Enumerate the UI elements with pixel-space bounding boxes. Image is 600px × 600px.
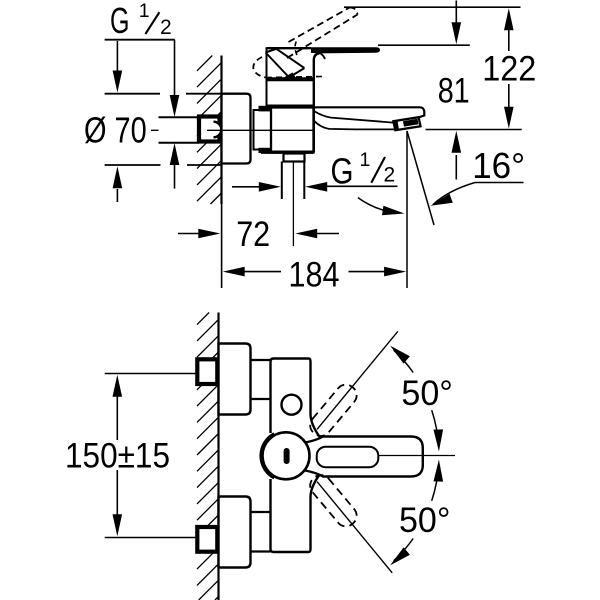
- upper escutcheon (front view): [219, 344, 251, 415]
- O70 arrow down: [116, 41, 118, 71]
- dimension 72 line and arrows: [178, 233, 202, 235]
- concealed supply pipe stub G1/2 (side view): [159, 116, 200, 118]
- S-union adapter (side view): [254, 110, 272, 150]
- front face double-curve detail (side view): [315, 52, 326, 60]
- wall face line (front view): [217, 313, 219, 600]
- body front face (side view): [314, 53, 320, 152]
- svg-text:16°: 16°: [472, 145, 525, 186]
- outlet G 1/2 dim arrows: [232, 186, 262, 188]
- O70 extension line bottom: [105, 164, 161, 166]
- boss outer collar arc (front view): [261, 433, 275, 478]
- 150 dim arrows: [113, 375, 123, 397]
- lower 50 deg arc inner segment with arrow (front view): [432, 464, 439, 501]
- O70 extension line top: [105, 93, 160, 95]
- G 1/2 underline (top left): [105, 39, 175, 41]
- dimension 122 arrows: [504, 8, 514, 30]
- svg-text:2: 2: [160, 16, 172, 39]
- S-union nut flat bottom (side view): [259, 148, 273, 153]
- lower 50 deg arc outer segment with arrow (front view): [394, 539, 414, 561]
- cartridge cap outline (side view): [267, 48, 314, 105]
- S-union nut flat top (side view): [259, 106, 273, 112]
- upper 50 deg arc outer segment with arrow (front view): [394, 350, 414, 372]
- svg-text:184: 184: [289, 256, 340, 295]
- svg-text:G: G: [110, 0, 130, 41]
- lower escutcheon (front view): [219, 497, 251, 568]
- wall fitting square (side view): [199, 117, 220, 142]
- svg-text:50°: 50°: [401, 374, 453, 413]
- upper 50 deg arc inner segment with arrow (front view): [432, 410, 439, 447]
- lower 50 deg line (front view): [317, 482, 392, 573]
- raised lever position dashed (front view, up 50deg): [306, 381, 361, 440]
- lever centerline (front view): [378, 455, 455, 457]
- svg-text:50°: 50°: [399, 501, 451, 540]
- svg-text:122: 122: [482, 50, 536, 89]
- lowered lever position dashed (front view, down 50deg): [306, 471, 361, 530]
- small circle screw (front view): [282, 395, 302, 415]
- upper wall fitting square (front view): [197, 359, 217, 384]
- svg-text:1: 1: [360, 149, 371, 171]
- G 1/2 leader arrow down to pipe top: [174, 40, 176, 98]
- outlet pipe centerline extension (side view): [292, 162, 294, 247]
- lever boss circle (front view): [263, 432, 310, 479]
- boss screw slot (front view): [284, 448, 290, 464]
- faucet body thick base line (side view): [261, 150, 313, 153]
- spout front tip (side view): [413, 107, 424, 119]
- water stream 16 deg slant line: [407, 131, 434, 225]
- faucet body (front view): [271, 359, 321, 553]
- svg-text:150±15: 150±15: [65, 437, 170, 476]
- wall face extension line down (side view): [221, 204, 223, 288]
- O70 arrow up: [116, 189, 118, 202]
- lever handle (front view): [305, 437, 423, 477]
- faucet body (side view): [271, 108, 314, 153]
- svg-text:1: 1: [139, 0, 150, 22]
- aerator at spout tip (side view): [393, 117, 420, 130]
- 150 extension line upper: [105, 373, 198, 375]
- svg-text:Ø 70: Ø 70: [84, 109, 147, 150]
- pipe axis centerline (side view): [151, 129, 159, 131]
- 16 deg arc right with arrow: [433, 183, 475, 205]
- lever handle lowered (side view): [311, 47, 380, 53]
- upper 50 deg line (front view): [317, 331, 398, 429]
- lever raised position (dashed, side view): [289, 8, 350, 43]
- dimension 184 line and arrows: [223, 267, 245, 277]
- wall section hatching (side view): [197, 56, 212, 71]
- raised lever top reference line: [344, 6, 521, 8]
- G 1/2 leader arrow up to pipe bottom: [174, 164, 176, 189]
- svg-text:81: 81: [438, 72, 470, 111]
- escutcheon flange (side view): [222, 94, 251, 164]
- dimension 81 arrows: [455, 1, 457, 25]
- spout underside upper curve (side view): [314, 111, 393, 123]
- fitting semicircle pipe end (side view): [214, 122, 222, 138]
- water stream vertical extension line: [406, 131, 408, 288]
- shower outlet collar (side view): [284, 154, 305, 162]
- lever inner detail (front view): [317, 447, 379, 468]
- svg-text:2: 2: [384, 163, 396, 186]
- cap thick ring line (side view): [267, 77, 316, 81]
- lever top reference line: [378, 44, 470, 46]
- spout top edge (side view): [314, 106, 421, 108]
- upper inlet stub (front view): [251, 360, 271, 399]
- spout underside lower curve (side view): [314, 121, 394, 130]
- lever wedge rear (side view): [266, 53, 289, 78]
- spout outlet reference line: [426, 129, 522, 131]
- 16 deg arc left with arrow: [358, 198, 397, 213]
- lower inlet stub (front view): [251, 512, 271, 552]
- svg-text:G: G: [331, 150, 354, 191]
- lower wall fitting square (front view): [197, 527, 217, 552]
- svg-text:72: 72: [236, 215, 270, 254]
- wall section hatching (front view): [197, 313, 209, 325]
- 150 extension line lower: [105, 537, 198, 539]
- 16 deg underline: [475, 182, 524, 184]
- shower outlet pipe G1/2 (side view): [281, 162, 283, 200]
- wall face line (side view): [220, 56, 222, 205]
